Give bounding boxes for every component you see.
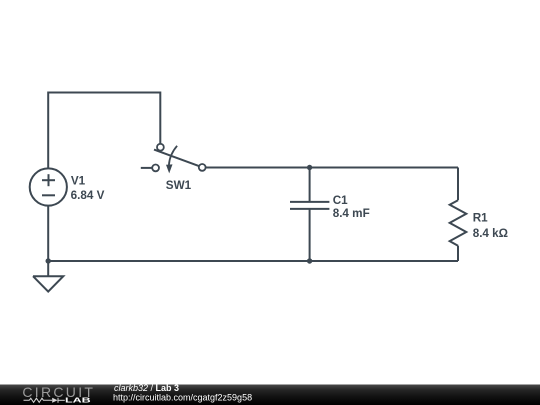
svg-text:SW1: SW1 (166, 179, 192, 192)
svg-text:8.4 kΩ: 8.4 kΩ (473, 227, 508, 240)
svg-text:clarkb32 / Lab 3: clarkb32 / Lab 3 (114, 383, 179, 393)
svg-text:http://circuitlab.com/cgatgf2z: http://circuitlab.com/cgatgf2z59g58 (113, 393, 252, 403)
svg-text:R1: R1 (473, 212, 488, 225)
svg-text:LAB: LAB (65, 396, 91, 405)
svg-text:8.4 mF: 8.4 mF (333, 207, 370, 220)
svg-text:6.84 V: 6.84 V (71, 189, 105, 202)
svg-text:C1: C1 (333, 194, 348, 207)
svg-text:V1: V1 (71, 174, 86, 187)
